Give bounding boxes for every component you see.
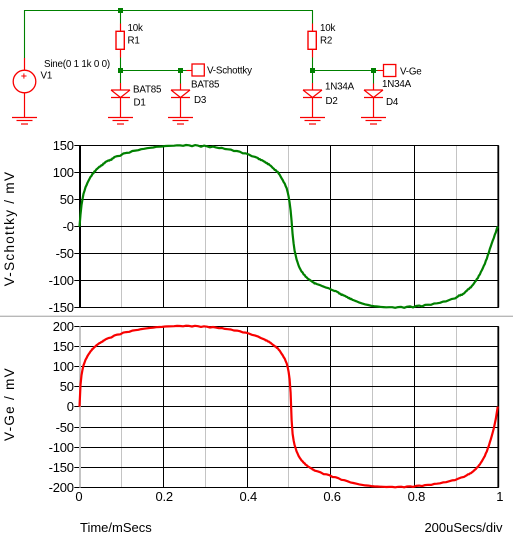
svg-text:-50: -50 (56, 246, 74, 261)
svg-text:0: 0 (67, 399, 74, 414)
svg-text:-50: -50 (56, 420, 74, 435)
svg-text:50: 50 (60, 192, 74, 207)
svg-text:Sine(0 1 1k 0 0): Sine(0 1 1k 0 0) (44, 59, 110, 70)
svg-text:V-Ge: V-Ge (400, 66, 422, 77)
svg-text:-100: -100 (49, 440, 74, 455)
svg-text:-0: -0 (63, 219, 74, 234)
svg-text:1N34A: 1N34A (325, 82, 355, 93)
svg-text:V-Ge / mV: V-Ge / mV (2, 367, 17, 441)
svg-text:V-Schottky: V-Schottky (207, 65, 252, 76)
svg-text:150: 150 (53, 138, 74, 153)
svg-text:-150: -150 (49, 460, 74, 475)
svg-text:-100: -100 (49, 273, 74, 288)
svg-text:10k: 10k (128, 23, 143, 34)
svg-text:D4: D4 (386, 97, 399, 108)
svg-text:V-Schottky / mV: V-Schottky / mV (2, 171, 17, 287)
svg-text:D2: D2 (326, 96, 338, 107)
svg-text:-200: -200 (49, 480, 74, 495)
svg-text:0.8: 0.8 (408, 489, 425, 504)
svg-text:1: 1 (496, 489, 503, 504)
svg-text:R2: R2 (320, 36, 332, 47)
svg-text:200: 200 (53, 319, 74, 334)
svg-text:D1: D1 (134, 97, 146, 108)
svg-text:R1: R1 (128, 36, 140, 47)
svg-text:0.4: 0.4 (240, 489, 257, 504)
svg-text:V1: V1 (41, 71, 53, 82)
svg-text:0.6: 0.6 (323, 489, 340, 504)
svg-text:0: 0 (75, 489, 82, 504)
svg-text:10k: 10k (320, 23, 335, 34)
svg-text:150: 150 (53, 339, 74, 354)
svg-text:D3: D3 (194, 95, 207, 106)
svg-text:BAT85: BAT85 (191, 80, 220, 91)
svg-text:0.2: 0.2 (155, 489, 172, 504)
svg-text:-150: -150 (49, 300, 74, 315)
svg-text:BAT85: BAT85 (133, 84, 162, 95)
svg-text:200uSecs/div: 200uSecs/div (424, 520, 503, 535)
svg-text:100: 100 (53, 359, 74, 374)
svg-text:1N34A: 1N34A (382, 79, 412, 90)
svg-text:Time/mSecs: Time/mSecs (80, 520, 152, 535)
svg-text:50: 50 (60, 379, 74, 394)
svg-text:100: 100 (53, 165, 74, 180)
